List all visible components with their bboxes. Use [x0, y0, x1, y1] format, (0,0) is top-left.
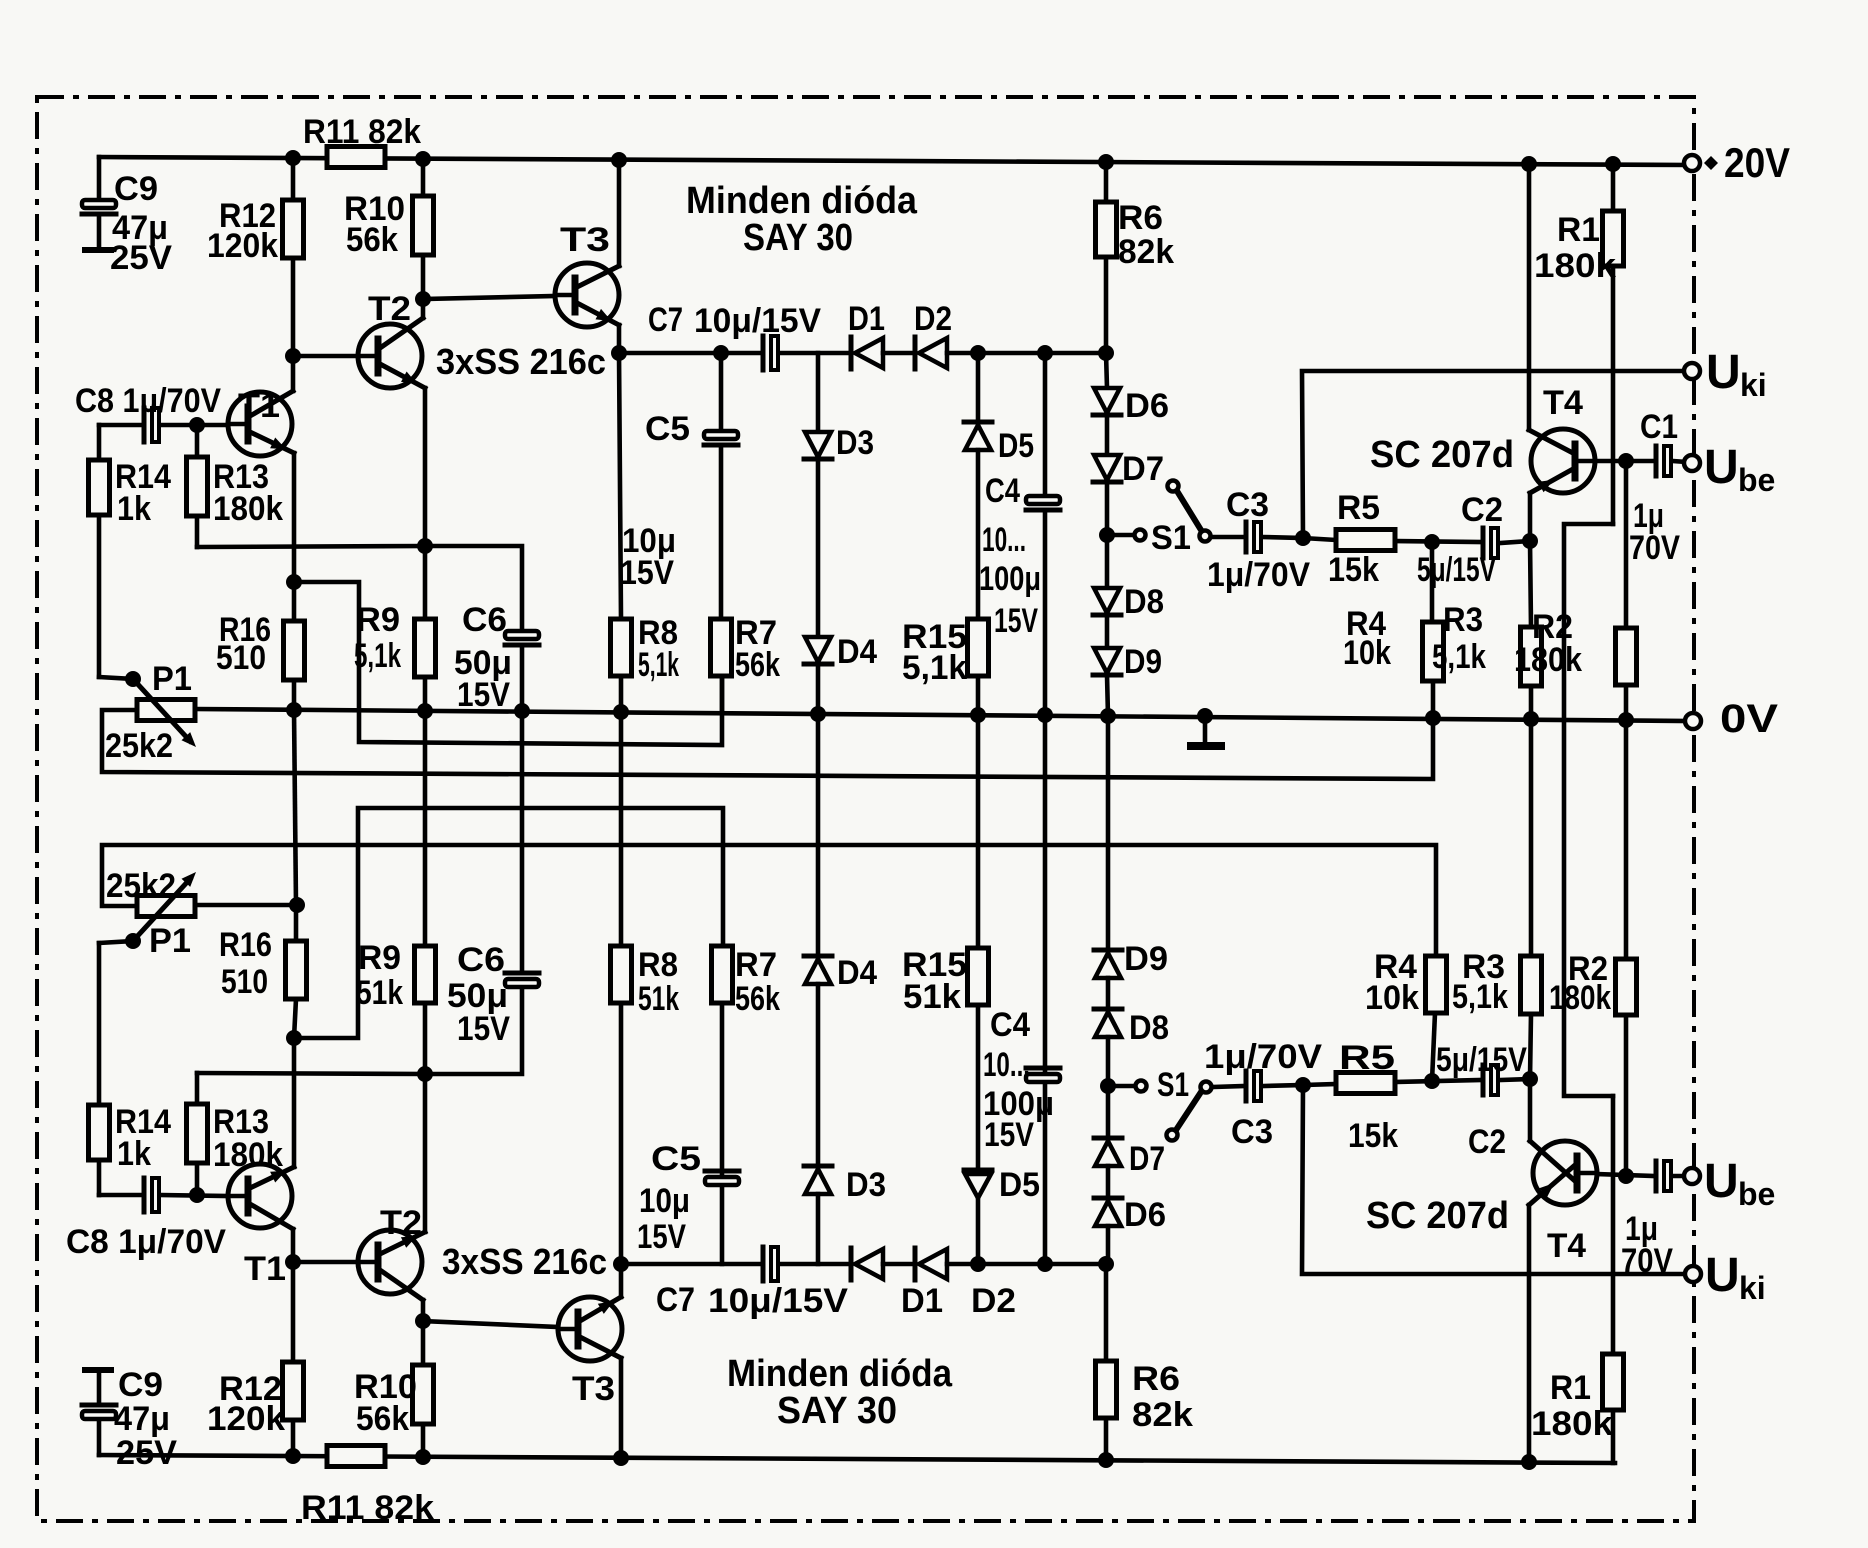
- capacitor C6 (top): [505, 631, 539, 711]
- wire +20V top rail: [99, 157, 1690, 165]
- switch S1 (top): [1114, 481, 1211, 542]
- svg-text:3xSS 216c: 3xSS 216c: [436, 341, 606, 382]
- label P1 (top): [152, 660, 192, 698]
- transistor T3 (top): [555, 263, 619, 327]
- label C1 value (top): [1629, 497, 1680, 567]
- svg-text:D2: D2: [971, 1282, 1016, 1320]
- node 0V / R2: [1618, 712, 1634, 728]
- svg-text:120k: 120k: [207, 227, 278, 265]
- svg-text:51k: 51k: [638, 980, 679, 1018]
- resistor R16 (bottom): [286, 905, 307, 1038]
- node C2 / R3 / T4 emitter (bottom): [1522, 1071, 1538, 1087]
- label D1 (bottom): [901, 1282, 943, 1320]
- label D1 (top): [848, 300, 885, 338]
- svg-text:56k: 56k: [346, 221, 398, 259]
- label SC 207d (top): [1370, 434, 1514, 476]
- svg-text:C7: C7: [656, 1281, 695, 1319]
- transistor T2 (top): [358, 318, 425, 388]
- svg-text:510: 510: [221, 963, 268, 1001]
- diode D2 (bottom): [915, 1248, 947, 1280]
- node T1 emitter branch (top): [286, 574, 302, 590]
- svg-text:U: U: [1705, 1249, 1740, 1302]
- label C9 (top): [114, 170, 158, 208]
- resistor R13 (bottom): [187, 1073, 426, 1195]
- svg-text:C6: C6: [462, 601, 507, 639]
- svg-text:C8 1μ/70V: C8 1μ/70V: [66, 1223, 226, 1261]
- svg-text:70V: 70V: [1629, 529, 1680, 567]
- wire T4 base to C1 (top): [1595, 459, 1654, 464]
- resistor R8 (top): [611, 353, 632, 712]
- svg-text:ki: ki: [1740, 367, 1767, 403]
- svg-text:15V: 15V: [984, 1116, 1034, 1154]
- capacitor C7 (top): [763, 336, 778, 370]
- wire T3 base line (bottom): [423, 1321, 557, 1327]
- svg-text:be: be: [1738, 1176, 1775, 1212]
- label C4 value (bottom): [983, 1046, 1054, 1154]
- label Minden dioda (bottom): [727, 1353, 953, 1395]
- wire P1 left wrap (bottom): [102, 845, 1436, 956]
- capacitor C7 (bottom): [763, 1247, 778, 1281]
- node R5 / R4 (bottom): [1424, 1073, 1440, 1089]
- svg-text:25V: 25V: [116, 1434, 177, 1472]
- label C4 (bottom): [990, 1006, 1030, 1044]
- wire rail link C6 column: [520, 711, 525, 973]
- svg-text:R9: R9: [356, 601, 400, 639]
- svg-text:R1: R1: [1557, 211, 1600, 249]
- label C5 value (bottom): [637, 1182, 690, 1256]
- svg-text:15V: 15V: [637, 1218, 686, 1256]
- svg-text:T1: T1: [238, 387, 280, 425]
- wire top rail to C9: [97, 157, 102, 200]
- capacitor C8 (top): [144, 408, 159, 442]
- diode D4 (top): [804, 459, 832, 664]
- resistor R3 (top): [1521, 541, 1542, 719]
- node 0V / D4: [810, 706, 826, 722]
- terminal Ube (bottom): [1684, 1168, 1700, 1184]
- wire C6 branch (bottom): [425, 987, 522, 1074]
- label R9 51k (bottom): [356, 939, 403, 1012]
- wire D2 to R6 column (bottom): [947, 1262, 1106, 1267]
- label 3xSS 216c (top): [436, 341, 606, 382]
- svg-text:10μ: 10μ: [639, 1182, 690, 1220]
- label C7 (top): [648, 301, 683, 339]
- svg-text:C9: C9: [114, 170, 158, 208]
- svg-text:D3: D3: [836, 424, 874, 462]
- capacitor C2 (bottom): [1483, 1065, 1498, 1095]
- svg-text:R5: R5: [1337, 489, 1380, 527]
- resistor R15 (top): [968, 450, 989, 715]
- label C9 (bottom): [118, 1366, 163, 1404]
- label S1 (top): [1151, 519, 1191, 557]
- node top rail / T3 collector: [611, 152, 627, 168]
- svg-text:1μ/70V: 1μ/70V: [1204, 1038, 1322, 1076]
- svg-text:5μ/15V: 5μ/15V: [1436, 1041, 1527, 1079]
- node R9 top / R13 line (top): [417, 538, 433, 554]
- svg-text:be: be: [1738, 462, 1775, 498]
- svg-text:C3: C3: [1231, 1113, 1273, 1151]
- wire D1 to D2 (bottom): [883, 1262, 915, 1267]
- label R4 10k (bottom): [1365, 948, 1419, 1017]
- svg-text:P1: P1: [152, 660, 192, 698]
- node P1 wiper (top): [125, 671, 141, 687]
- label R3 51k (bottom): [1452, 948, 1508, 1016]
- svg-text:C4: C4: [990, 1006, 1030, 1044]
- svg-text:ki: ki: [1739, 1270, 1766, 1306]
- node C7 line / C4 (top): [1037, 345, 1053, 361]
- svg-text:1k: 1k: [117, 1135, 151, 1173]
- diode D3 (top): [804, 353, 832, 459]
- wire C2 to T4 emitter (bottom): [1500, 1079, 1530, 1080]
- svg-text:15V: 15V: [457, 1010, 510, 1048]
- label R2 180k (bottom): [1549, 950, 1611, 1017]
- diode D7 (bottom): [1094, 1086, 1122, 1166]
- label Minden dioda (top): [686, 180, 918, 222]
- diode D8 (top): [1093, 535, 1121, 615]
- node top rail / R12: [285, 150, 301, 166]
- node lower T1 emitter branch: [286, 1030, 302, 1046]
- label C2 (bottom): [1468, 1123, 1506, 1161]
- svg-text:R11 82k: R11 82k: [301, 1489, 434, 1527]
- node C3 / R5 / Uki (top): [1295, 530, 1311, 546]
- svg-text:56k: 56k: [735, 646, 780, 684]
- svg-text:180k: 180k: [1534, 247, 1616, 285]
- label D5 (bottom): [999, 1166, 1040, 1204]
- node R9 top / R13 line (bottom): [417, 1066, 433, 1082]
- svg-text:3xSS 216c: 3xSS 216c: [442, 1241, 607, 1282]
- label T2 (bottom): [380, 1204, 422, 1242]
- svg-text:R11 82k: R11 82k: [303, 113, 421, 151]
- label R5 (bottom): [1339, 1039, 1395, 1077]
- terminal 0V: [1685, 713, 1701, 729]
- svg-text:180k: 180k: [1514, 641, 1582, 679]
- svg-text:10k: 10k: [1343, 634, 1391, 672]
- node T2 collector / T3 base (top): [415, 291, 431, 307]
- node T2 collector / T3 base (bottom): [415, 1313, 431, 1329]
- label 0V: [1720, 697, 1778, 741]
- capacitor C1 (top): [1656, 446, 1671, 476]
- wire D8 to S1 node (bottom): [1106, 1037, 1111, 1086]
- diode D6 (top): [1093, 353, 1121, 415]
- capacitor C4 (top): [1026, 353, 1060, 715]
- label C3 (bottom): [1231, 1113, 1273, 1151]
- node T1 collector / T2 base (top): [285, 348, 301, 364]
- wire T4 collector (bottom): [1527, 1205, 1532, 1462]
- capacitor C1 (bottom): [1656, 1161, 1671, 1191]
- svg-text:510: 510: [216, 639, 266, 677]
- wire D9 to 0V (top): [1107, 675, 1108, 716]
- wire T3 emitter to C7 line (top): [617, 325, 622, 353]
- resistor R1 (bottom): [1603, 1096, 1624, 1463]
- switch S1 (bottom): [1115, 1081, 1212, 1141]
- label 3xSS 216c (bottom): [442, 1241, 607, 1282]
- label SAY 30 (top): [743, 217, 853, 259]
- wire D3 to C7 line (bottom): [816, 1194, 821, 1264]
- svg-text:C2: C2: [1468, 1123, 1506, 1161]
- resistor R4 (bottom): [1426, 956, 1447, 1081]
- svg-text:D5: D5: [998, 427, 1034, 465]
- wire C7 to D1 (top): [780, 351, 851, 356]
- svg-text:82k: 82k: [1118, 233, 1174, 271]
- label D4 (bottom): [837, 954, 877, 992]
- svg-text:C2: C2: [1461, 491, 1503, 529]
- svg-text:10k: 10k: [1365, 979, 1419, 1017]
- svg-text:T1: T1: [244, 1250, 286, 1288]
- terminal Uki (top): [1684, 363, 1700, 379]
- svg-text:82k: 82k: [1132, 1396, 1193, 1434]
- diode D4 (bottom): [804, 956, 832, 984]
- label D6 (top): [1125, 387, 1169, 425]
- node 0V / C4: [1037, 707, 1053, 723]
- svg-text:47μ: 47μ: [114, 1400, 170, 1438]
- capacitor C5 (bottom): [705, 1003, 739, 1264]
- potentiometer P1 (top): [133, 679, 196, 747]
- label D5 (top): [998, 427, 1034, 465]
- label C6 (top): [462, 601, 507, 639]
- wire C3 to R5 (bottom): [1263, 1085, 1303, 1086]
- svg-text:C6: C6: [457, 941, 505, 979]
- svg-text:C7: C7: [648, 301, 683, 339]
- svg-text:70V: 70V: [1621, 1242, 1673, 1280]
- label C7 (bottom): [656, 1281, 695, 1319]
- terminal Ube (top): [1684, 455, 1700, 471]
- label R5 15k (top): [1328, 551, 1379, 589]
- node bottom rail / R10: [415, 1449, 431, 1465]
- diode D1 (bottom): [851, 1248, 883, 1280]
- diode D2 (top): [915, 337, 947, 369]
- transistor T3 (bottom): [558, 1297, 622, 1361]
- resistor R7 (bottom): [712, 946, 733, 1003]
- label 25k2 (top): [105, 727, 173, 765]
- wire bottom rail: [99, 1455, 1615, 1463]
- label R4 10k (top): [1343, 605, 1391, 672]
- svg-text:1k: 1k: [117, 490, 151, 528]
- label D3 (top): [836, 424, 874, 462]
- label SC 207d (bottom): [1366, 1195, 1509, 1237]
- resistor R12 (bottom): [283, 1229, 304, 1456]
- label T3 (bottom): [572, 1370, 615, 1408]
- label T4 (top): [1543, 384, 1583, 422]
- label C9 value (bottom): [114, 1400, 177, 1472]
- node T4 base / R2 / R1 (bottom): [1618, 1168, 1634, 1184]
- label D4 (top): [837, 633, 877, 671]
- wire D4 to 0V (top): [816, 664, 821, 714]
- svg-text:5μ/15V: 5μ/15V: [1417, 551, 1496, 589]
- diode D6 (bottom): [1094, 1166, 1122, 1226]
- label D3 (bottom): [846, 1166, 886, 1204]
- svg-text:U: U: [1704, 1155, 1739, 1208]
- label D8 (bottom): [1129, 1009, 1169, 1047]
- node T1 base / R13 (bottom): [189, 1187, 205, 1203]
- label R7 56k (bottom): [735, 946, 780, 1018]
- label R15 51k (bottom): [902, 946, 967, 1016]
- resistor R5 (bottom): [1336, 1073, 1395, 1094]
- svg-text:15k: 15k: [1348, 1117, 1398, 1155]
- label SAY 30 (bottom): [777, 1390, 897, 1432]
- node bottom rail / T4 collector: [1521, 1454, 1537, 1470]
- transistor T4 (bottom): [1529, 1141, 1597, 1205]
- capacitor C8 (bottom): [144, 1178, 159, 1212]
- svg-text:25k2: 25k2: [106, 867, 176, 905]
- label R5 (top): [1337, 489, 1380, 527]
- transistor T1 (bottom): [228, 1164, 294, 1229]
- label D7 (top): [1122, 450, 1164, 488]
- wire T3 emitter to C7 line (bottom): [619, 1264, 624, 1297]
- diode D9 (top): [1093, 615, 1121, 675]
- svg-text:D4: D4: [837, 954, 877, 992]
- wire cross link A-prime bridge: [294, 808, 723, 1038]
- label R15 5,1k (top): [902, 618, 967, 687]
- svg-text:C9: C9: [118, 1366, 163, 1404]
- wire P1 left wrap (top): [102, 710, 1433, 779]
- label C5 value (top): [620, 522, 676, 592]
- svg-text:C5: C5: [645, 410, 690, 448]
- resistor R1 (top): [1603, 164, 1624, 524]
- svg-text:D2: D2: [914, 300, 952, 338]
- label R7 56k (top): [735, 614, 780, 684]
- wire T4 base to C1 (bottom): [1597, 1174, 1654, 1176]
- svg-text:15k: 15k: [1328, 551, 1379, 589]
- node T1 collector / T2 base (bottom): [285, 1254, 301, 1270]
- label C2 value (top): [1417, 551, 1496, 589]
- label D9 (top): [1124, 643, 1162, 681]
- label C7 value (bottom): [708, 1282, 848, 1320]
- wire D5 to C7 line (bottom): [976, 1198, 981, 1264]
- node T1 base / R13 (top): [189, 417, 205, 433]
- node C7 line / T3 emitter (top): [611, 345, 627, 361]
- svg-text:T2: T2: [380, 1204, 422, 1242]
- resistor R2 (bottom): [1616, 720, 1637, 1176]
- svg-text:5,1k: 5,1k: [638, 646, 679, 684]
- svg-text:C8 1μ/70V: C8 1μ/70V: [75, 382, 221, 420]
- label R12 120k (top): [207, 197, 278, 265]
- svg-text:D5: D5: [999, 1166, 1040, 1204]
- wire T1 emitter column (top): [292, 453, 297, 582]
- node S1 (top): [1099, 527, 1115, 543]
- wire rail link R8 column: [619, 712, 624, 946]
- node top rail / R6: [1098, 154, 1114, 170]
- svg-text:120k: 120k: [207, 1400, 285, 1438]
- svg-text:T4: T4: [1543, 384, 1583, 422]
- svg-text:D6: D6: [1124, 1196, 1166, 1234]
- wire T3 collector to top rail: [617, 160, 622, 266]
- wire rail link C4 column: [1043, 715, 1048, 1070]
- svg-text:D9: D9: [1124, 643, 1162, 681]
- resistor R11 (top): [327, 147, 385, 168]
- label R10 56k (top): [344, 190, 405, 259]
- diode D5 (top): [964, 353, 992, 450]
- node C7 line / R6 / D6 (top): [1098, 345, 1114, 361]
- wire T3 base line (top): [423, 296, 555, 299]
- label R1 180k (top): [1534, 211, 1616, 285]
- wire S1 to C3 (bottom): [1212, 1086, 1244, 1087]
- resistor R14 (bottom): [89, 941, 134, 1195]
- svg-text:SC 207d: SC 207d: [1370, 434, 1514, 476]
- label D6 (bottom): [1124, 1196, 1166, 1234]
- wire rail link R16 column: [294, 710, 296, 905]
- label R10 56k (bottom): [354, 1368, 417, 1438]
- label R16 510 (top): [216, 611, 271, 677]
- svg-text:10μ/15V: 10μ/15V: [694, 302, 821, 340]
- svg-text:R6: R6: [1118, 199, 1163, 237]
- ground symbol: [1191, 716, 1221, 746]
- node 0V / C6: [514, 703, 530, 719]
- svg-text:1μ/70V: 1μ/70V: [1207, 556, 1310, 594]
- svg-text:D3: D3: [846, 1166, 886, 1204]
- svg-text:T3: T3: [572, 1370, 615, 1408]
- svg-text:R6: R6: [1132, 1360, 1180, 1398]
- label C5 (bottom): [651, 1140, 701, 1178]
- label R11 82k (bottom): [301, 1489, 434, 1527]
- svg-text:Minden dióda: Minden dióda: [686, 180, 918, 222]
- diode D9 (bottom): [1094, 950, 1122, 978]
- resistor R14 (top): [89, 425, 134, 679]
- node 0V / R9: [417, 703, 433, 719]
- resistor R16 (top): [284, 582, 305, 710]
- wire T2 base branch (top): [293, 354, 358, 359]
- svg-text:15V: 15V: [457, 676, 510, 714]
- terminal Uki (bottom): [1685, 1266, 1701, 1282]
- resistor R2 (top): [1616, 461, 1637, 720]
- svg-text:SAY 30: SAY 30: [743, 217, 853, 259]
- svg-text:U: U: [1704, 441, 1739, 494]
- wire rail link D4 column: [816, 714, 821, 956]
- resistor R11 (bottom): [327, 1446, 385, 1467]
- resistor R8 (bottom): [611, 946, 632, 1264]
- wire C8 to T1 base (bottom): [161, 1195, 228, 1196]
- node C3 / R5 / Uki (bottom): [1295, 1077, 1311, 1093]
- label C3 value (top): [1207, 556, 1310, 594]
- wire Uki (bottom): [1302, 1085, 1689, 1274]
- resistor R9 (top): [415, 388, 436, 711]
- svg-text:T3: T3: [560, 221, 610, 259]
- capacitor C2 (top): [1483, 528, 1498, 558]
- label T1 (bottom): [244, 1250, 286, 1288]
- label C4 (top): [985, 472, 1020, 510]
- resistor R13 (top): [187, 425, 426, 547]
- wire T2 base branch (bottom): [293, 1260, 358, 1265]
- label D8 (top): [1124, 583, 1164, 621]
- wire C1 to Ube terminal (bottom): [1673, 1174, 1687, 1179]
- label C2 (top): [1461, 491, 1503, 529]
- label R16 510 (bottom): [219, 926, 272, 1001]
- node top rail / R10: [415, 151, 431, 167]
- node C7 line / D5 (top): [970, 345, 986, 361]
- svg-text:180k: 180k: [1531, 1405, 1613, 1443]
- resistor R6 (top): [1096, 162, 1117, 353]
- label R14 1k (top): [115, 458, 171, 528]
- wire T4 emitter down (top): [1528, 493, 1533, 541]
- label 25k2 (bottom): [106, 867, 176, 905]
- label C2 value (bottom): [1436, 1041, 1527, 1079]
- svg-text:180k: 180k: [213, 490, 283, 528]
- label T3 (top): [560, 221, 610, 259]
- label C3 value (bottom): [1204, 1038, 1322, 1076]
- node bottom rail / R12: [285, 1448, 301, 1464]
- svg-text:10...: 10...: [983, 1046, 1030, 1084]
- transistor T1 (top): [228, 391, 294, 456]
- label C4 value (top): [979, 521, 1041, 640]
- svg-text:56k: 56k: [735, 980, 780, 1018]
- node 0V / R16: [286, 702, 302, 718]
- label D2 (bottom): [971, 1282, 1016, 1320]
- node 0V / R15: [970, 707, 986, 723]
- label R8 5,1k (top): [638, 614, 679, 684]
- label R13 180k (bottom): [213, 1103, 283, 1174]
- wire T1 emitter column (bottom): [292, 1038, 297, 1167]
- resistor R4 (top): [1423, 542, 1444, 718]
- node 0V / ground: [1197, 708, 1213, 724]
- svg-text:P1: P1: [149, 922, 191, 960]
